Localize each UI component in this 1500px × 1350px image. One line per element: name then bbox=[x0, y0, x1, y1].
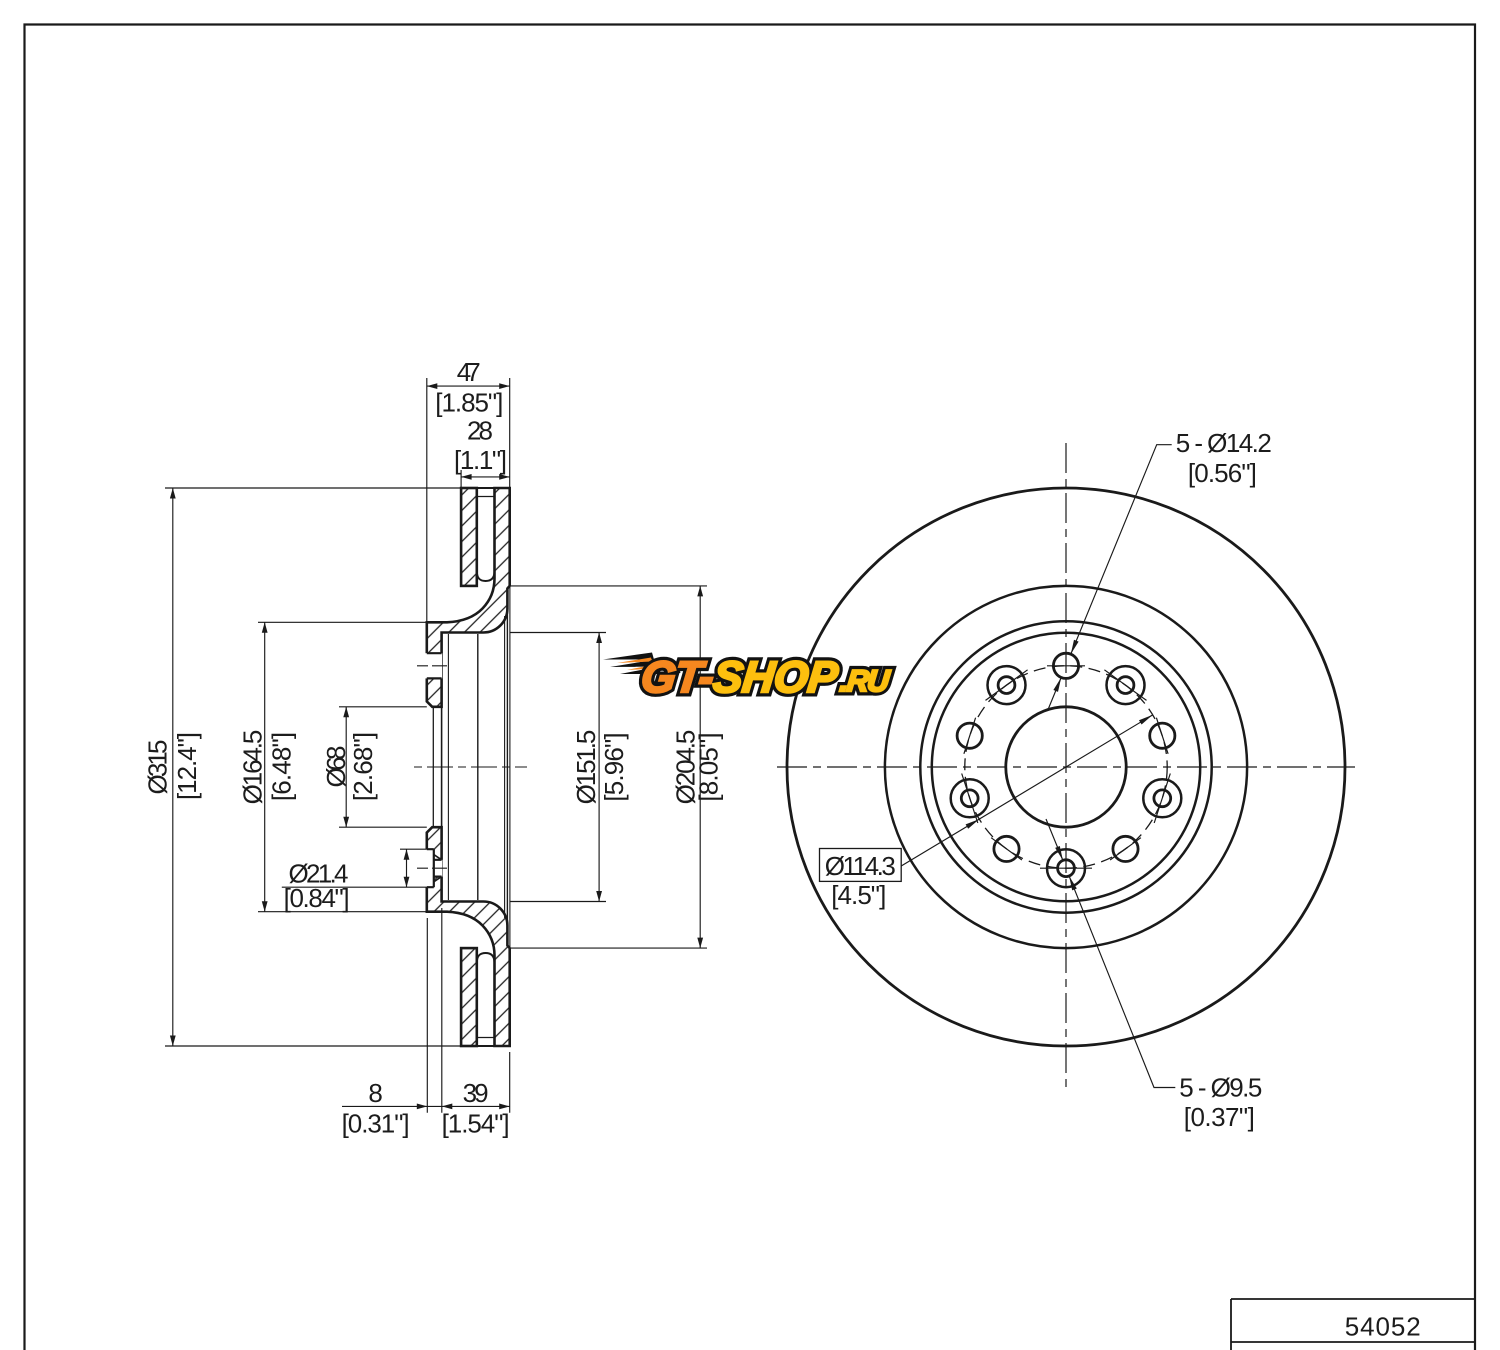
dim 39 line bbox=[442, 1105, 510, 1107]
dim Ø204.5 extension lines bbox=[510, 586, 707, 948]
dim 28 line bbox=[461, 476, 510, 478]
svg-text:[2.68"]: [2.68"] bbox=[348, 732, 378, 801]
bore exit circle projected line bbox=[441, 707, 443, 827]
outboard friction plate upper (hatched) bbox=[461, 488, 477, 586]
dim Ø204.5 line bbox=[699, 586, 701, 948]
drill cone edges of counterbore bbox=[434, 855, 442, 882]
svg-text:[0.84"]: [0.84"] bbox=[284, 883, 350, 913]
stud hole centerline upper bbox=[417, 665, 447, 667]
vent channel root floor lower bbox=[477, 953, 495, 962]
dim 47 line bbox=[427, 385, 510, 387]
hat interior fillet tangent line bbox=[477, 634, 479, 900]
svg-text:54052: 54052 bbox=[1345, 1312, 1421, 1342]
screw hole Ø9.5 with Ø21.4 counterbore 54deg bbox=[1107, 666, 1145, 704]
dim Ø315 extension lines bbox=[165, 488, 461, 1046]
dim 28 extension line bbox=[460, 470, 462, 488]
svg-text:[0.31"]: [0.31"] bbox=[342, 1109, 410, 1139]
counterbore + screw hole void in lower flange bbox=[425, 849, 433, 887]
dim 47 extension lines bbox=[427, 378, 510, 622]
svg-text:Ø315: Ø315 bbox=[143, 740, 173, 795]
screw hole Ø9.5 with Ø21.4 counterbore 198deg bbox=[951, 779, 989, 817]
screw hole Ø9.5 with Ø21.4 counterbore 270deg bottom bbox=[1047, 849, 1085, 887]
svg-text:5 - Ø9.5: 5 - Ø9.5 bbox=[1179, 1072, 1262, 1102]
leader 5-Ø14.2 bbox=[1071, 445, 1172, 654]
vertical centerline bbox=[1065, 443, 1067, 1087]
dim 8 line with tail bbox=[342, 1105, 442, 1107]
svg-text:47: 47 bbox=[457, 357, 481, 387]
vent channel vane edge lines bbox=[477, 497, 495, 1038]
svg-text:5 - Ø14.2: 5 - Ø14.2 bbox=[1176, 428, 1272, 458]
rotor OD edge across vent gap bbox=[477, 488, 495, 1046]
dim Ø315 line bbox=[172, 488, 174, 1046]
stud hole Ø14.2 lower-left 234deg bbox=[994, 836, 1019, 861]
dim Ø68 line bbox=[345, 707, 347, 827]
stud hole Ø14.2 left 162deg bbox=[957, 723, 982, 748]
inboard plate + hat wall + flange upper (hatched) bbox=[427, 488, 510, 707]
svg-text:Ø164.5: Ø164.5 bbox=[237, 730, 267, 805]
svg-text:[1.85"]: [1.85"] bbox=[435, 388, 503, 418]
svg-text:28: 28 bbox=[467, 416, 493, 446]
dim texts left view bbox=[143, 740, 173, 795]
label box Ø114.3 bbox=[820, 849, 902, 882]
dim Ø21.4 extension lines bbox=[282, 849, 427, 887]
svg-text:Ø68: Ø68 bbox=[321, 746, 351, 788]
circle Ø204.5 bbox=[885, 586, 1247, 948]
svg-text:8: 8 bbox=[368, 1078, 382, 1108]
screw hole centerline lower bbox=[417, 867, 447, 869]
leader 5-Ø9.5 tail through hole bbox=[1046, 819, 1063, 860]
bolt circle Ø114.3 dashed bbox=[965, 666, 1167, 868]
outer circle Ø315 bbox=[787, 488, 1345, 1046]
stud hole Ø14.2 top bbox=[1053, 653, 1078, 678]
svg-text:.RU: .RU bbox=[838, 665, 892, 698]
dim Ø151.5 line bbox=[598, 633, 600, 902]
circle Ø164.5 bbox=[920, 621, 1211, 912]
logo speed streaks orange bbox=[617, 658, 655, 671]
svg-text:[1.54"]: [1.54"] bbox=[442, 1109, 510, 1139]
hat interior projected edge line bbox=[504, 616, 506, 918]
dim Ø164.5 extension lines bbox=[258, 622, 427, 911]
svg-text:[12.4"]: [12.4"] bbox=[172, 732, 202, 800]
friction ring inner edge projected line bbox=[509, 586, 511, 948]
svg-text:[6.48"]: [6.48"] bbox=[266, 732, 296, 801]
logo text gt-shop.ru bbox=[639, 653, 893, 702]
svg-text:Ø114.3: Ø114.3 bbox=[825, 851, 896, 881]
dim Ø151.5 extension lines bbox=[510, 633, 606, 902]
hat step projected line bbox=[506, 609, 508, 926]
stud hole Ø14.2 right 18deg bbox=[1150, 723, 1175, 748]
dim arrowheads left view bbox=[170, 488, 176, 499]
svg-text:GT-: GT- bbox=[639, 653, 716, 702]
horizontal centerline bbox=[777, 766, 1355, 768]
bore chamfer projected line bbox=[432, 707, 434, 827]
stud hole void in upper flange bbox=[425, 653, 442, 678]
leader 5-Ø9.5 bbox=[1069, 876, 1175, 1088]
screw hole Ø9.5 with Ø21.4 counterbore 342deg bbox=[1143, 779, 1181, 817]
bolt-circle centermark ticks through holes bbox=[962, 666, 1171, 868]
svg-text:[0.37"]: [0.37"] bbox=[1184, 1102, 1255, 1132]
title block bbox=[1231, 1299, 1475, 1350]
outboard friction plate lower (hatched) bbox=[461, 948, 477, 1046]
hub bore Ø68 bbox=[1006, 707, 1126, 827]
dim Ø68 extension lines bbox=[339, 707, 427, 827]
dim 8 / 39 extension lines bbox=[427, 908, 509, 1113]
svg-text:39: 39 bbox=[463, 1078, 489, 1108]
svg-text:[0.56"]: [0.56"] bbox=[1188, 458, 1257, 488]
dim Ø21.4 line bbox=[406, 849, 408, 887]
logo speed streaks black bbox=[603, 653, 661, 675]
circle Ø151.5 bbox=[932, 633, 1200, 901]
flange back fillet tangent line bbox=[447, 634, 449, 900]
screw hole Ø9.5 with Ø21.4 counterbore 126deg bbox=[988, 666, 1026, 704]
dim Ø114.3 diagonal line bbox=[901, 715, 1152, 866]
svg-text:Ø151.5: Ø151.5 bbox=[571, 730, 601, 805]
inboard plate + hat wall + flange lower (hatched) bbox=[427, 827, 510, 1046]
vent channel root floor upper bbox=[477, 572, 495, 581]
svg-text:SHOP: SHOP bbox=[711, 653, 841, 702]
svg-text:[8.05"]: [8.05"] bbox=[693, 732, 723, 801]
svg-text:[1.1"]: [1.1"] bbox=[454, 445, 507, 475]
dim Ø164.5 line bbox=[264, 622, 266, 911]
section axis centerline bbox=[414, 766, 527, 768]
svg-text:[4.5"]: [4.5"] bbox=[831, 880, 886, 910]
leader 5-Ø14.2 tail through hole bbox=[1048, 678, 1061, 710]
stud hole Ø14.2 lower-right 306deg bbox=[1113, 836, 1138, 861]
svg-text:[5.96"]: [5.96"] bbox=[599, 732, 629, 801]
